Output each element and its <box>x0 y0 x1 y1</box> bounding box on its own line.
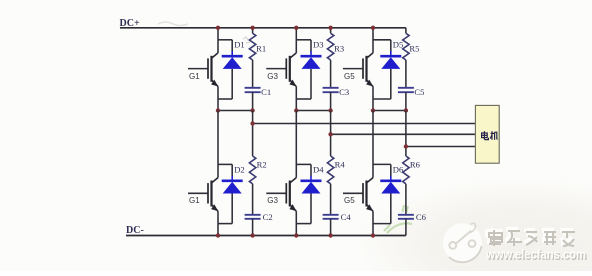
wire R top leg1 lower <box>252 111 254 157</box>
wire diode step leg1 upper <box>218 40 232 56</box>
wire diode anode leg3 lower <box>390 194 392 224</box>
resistor R4 <box>327 156 333 184</box>
label G1 upper <box>189 72 200 81</box>
wire emitter join leg3 upper <box>373 98 391 100</box>
node DC+ at leg2 <box>294 26 298 30</box>
capacitor C6 <box>398 215 414 219</box>
diode D4 <box>301 181 322 194</box>
svg-text:D4: D4 <box>313 164 324 174</box>
node DC- at R branch leg2 <box>328 233 332 237</box>
label C4 <box>341 212 352 222</box>
wire R top leg2 <box>330 28 332 34</box>
wire collector drop leg3 upper <box>372 28 374 53</box>
capacitor C1 <box>245 88 261 92</box>
faint green watermark fragment <box>384 205 412 233</box>
diode D2 <box>222 181 243 194</box>
wire C bottom leg2 upper <box>330 92 332 110</box>
svg-text:G5: G5 <box>344 196 355 205</box>
label C3 <box>339 87 349 97</box>
wire R-C link leg1 upper <box>252 60 254 87</box>
wire phase output 2 <box>331 133 476 135</box>
node phase output 3 <box>404 144 408 148</box>
node DC+ at leg3 <box>371 26 375 30</box>
transistor IGBT G5 lower <box>343 178 373 212</box>
svg-text:G1: G1 <box>189 196 200 205</box>
wire emitter join leg2 lower <box>296 223 311 225</box>
label G3 lower <box>267 196 278 205</box>
capacitor C3 <box>323 88 339 92</box>
resistor R2 <box>249 156 255 184</box>
resistor R1 <box>249 33 255 60</box>
svg-text:G3: G3 <box>267 196 278 205</box>
svg-text:G5: G5 <box>344 72 355 81</box>
resistor R3 <box>327 33 333 60</box>
wire phase output 1 <box>253 123 476 125</box>
wire collector drop leg2 upper <box>295 28 297 53</box>
label D2 <box>234 164 245 174</box>
watermark backdrop tint <box>355 178 592 276</box>
wire collector drop leg2 lower <box>295 111 297 178</box>
svg-text:R2: R2 <box>257 160 267 170</box>
faint gray smudge near D1 <box>243 37 250 43</box>
wire collector drop leg3 lower <box>372 111 374 178</box>
svg-text:C5: C5 <box>414 87 424 97</box>
transistor IGBT G1 lower <box>188 178 218 212</box>
DC- bottom rail wire <box>126 235 406 237</box>
wire emitter join leg1 upper <box>218 98 232 100</box>
svg-text:C4: C4 <box>341 212 352 222</box>
wire C bottom leg3 upper <box>405 92 407 110</box>
label D6 <box>393 164 404 174</box>
svg-text:R3: R3 <box>334 44 344 54</box>
wire C bottom leg2 lower <box>330 219 332 236</box>
svg-text:R6: R6 <box>410 160 421 170</box>
wire emitter drop leg1 upper <box>217 87 219 111</box>
label R3 <box>334 44 344 54</box>
label C6 <box>416 212 427 222</box>
node phase output 2 <box>328 132 332 136</box>
watermark text 电子发烧友 <box>487 228 575 246</box>
transistor IGBT G1 upper <box>188 53 218 87</box>
wire R top leg3 lower <box>405 111 407 157</box>
node DC- at R branch leg1 <box>250 233 254 237</box>
capacitor C4 <box>323 215 339 219</box>
node phase right leg1 <box>250 108 254 112</box>
watermark logo circle <box>443 223 482 262</box>
wire emitter drop leg1 lower <box>217 211 219 235</box>
svg-text:DC-: DC- <box>126 225 144 236</box>
label R6 <box>410 160 421 170</box>
node DC+ at R branch leg2 <box>328 26 332 30</box>
label D4 <box>313 164 324 174</box>
wire diode step leg3 lower <box>373 164 391 180</box>
node phase right leg3 <box>404 108 408 112</box>
wire R-C link leg3 upper <box>405 60 407 87</box>
label R2 <box>257 160 267 170</box>
wire R top leg3 <box>405 28 407 34</box>
wire phase junction leg1 <box>218 110 253 112</box>
svg-text:G3: G3 <box>267 72 278 81</box>
faint gray smudge on top rail <box>158 22 188 26</box>
wire phase output 3 <box>406 146 476 148</box>
wire emitter drop leg3 upper <box>372 87 374 111</box>
svg-text:D5: D5 <box>393 40 404 50</box>
label D5 <box>393 40 404 50</box>
svg-text:D3: D3 <box>313 40 324 50</box>
wire C bottom leg1 upper <box>252 92 254 110</box>
wire emitter join leg1 lower <box>218 223 232 225</box>
label C1 <box>261 87 271 97</box>
wire diode step leg2 upper <box>296 40 311 56</box>
svg-text:R5: R5 <box>409 44 419 54</box>
svg-text:www.elecfans.com: www.elecfans.com <box>485 247 586 262</box>
label G3 upper <box>267 72 278 81</box>
label R4 <box>335 160 346 170</box>
wire diode anode leg1 lower <box>231 194 233 224</box>
DC+ label <box>120 18 140 29</box>
wire phase junction leg3 <box>373 110 406 112</box>
node phase right leg2 <box>328 108 332 112</box>
wire diode anode leg3 upper <box>390 69 392 99</box>
wire diode anode leg1 upper <box>231 69 233 99</box>
svg-text:C3: C3 <box>339 87 349 97</box>
label D1 <box>234 40 245 50</box>
wire phase junction leg2 <box>296 110 330 112</box>
wire R top leg1 <box>252 28 254 34</box>
node phase left leg3 <box>371 108 375 112</box>
svg-text:D1: D1 <box>234 40 245 50</box>
resistor R5 <box>403 33 409 60</box>
svg-text:C6: C6 <box>416 212 427 222</box>
wire collector drop leg1 upper <box>217 28 219 53</box>
motor box <box>475 105 499 163</box>
node DC+ at leg1 <box>216 26 220 30</box>
wire emitter drop leg3 lower <box>372 211 374 235</box>
wire emitter drop leg2 lower <box>295 211 297 235</box>
label G5 lower <box>344 196 355 205</box>
node DC+ at R branch leg1 <box>250 26 254 30</box>
wire emitter join leg2 upper <box>296 98 311 100</box>
wire diode step leg1 lower <box>218 164 232 180</box>
capacitor C5 <box>398 88 414 92</box>
wire diode anode leg2 lower <box>310 194 312 224</box>
node phase left leg1 <box>216 108 220 112</box>
label R5 <box>409 44 419 54</box>
svg-text:R1: R1 <box>256 44 266 54</box>
label C5 <box>414 87 424 97</box>
wire emitter drop leg2 upper <box>295 87 297 111</box>
transistor IGBT G3 upper <box>266 53 296 87</box>
label D3 <box>313 40 324 50</box>
label C2 <box>263 212 273 222</box>
diode D6 <box>380 181 401 194</box>
diode D1 <box>222 56 243 69</box>
wire R-C link leg1 lower <box>252 184 254 214</box>
node phase left leg2 <box>294 108 298 112</box>
wire C bottom leg3 lower <box>405 219 407 236</box>
svg-text:C1: C1 <box>261 87 271 97</box>
wire diode step leg2 lower <box>296 164 311 180</box>
node DC- at leg3 <box>371 233 375 237</box>
capacitor C2 <box>245 215 261 219</box>
diode D5 <box>380 56 401 69</box>
DC+ top rail wire <box>120 27 406 29</box>
DC- label <box>126 225 144 236</box>
diode D3 <box>301 56 322 69</box>
watermark text www.elecfans.com <box>485 247 587 263</box>
wire R-C link leg2 upper <box>330 60 332 87</box>
motor label 电机 <box>482 131 498 140</box>
label R1 <box>256 44 266 54</box>
label G1 lower <box>189 196 200 205</box>
label G5 upper <box>344 72 355 81</box>
svg-text:C2: C2 <box>263 212 273 222</box>
node phase output 1 <box>250 121 254 125</box>
svg-text:G1: G1 <box>189 72 200 81</box>
svg-text:DC+: DC+ <box>120 18 140 29</box>
node DC- at leg1 <box>216 233 220 237</box>
node DC- at leg2 <box>294 233 298 237</box>
wire diode step leg3 upper <box>373 40 391 56</box>
wire R top leg2 lower <box>330 111 332 157</box>
wire R-C link leg3 lower <box>405 184 407 214</box>
wire diode anode leg2 upper <box>310 69 312 99</box>
svg-text:R4: R4 <box>335 160 346 170</box>
wire emitter join leg3 lower <box>373 223 391 225</box>
resistor R6 <box>403 156 409 184</box>
transistor IGBT G3 lower <box>266 178 296 212</box>
transistor IGBT G5 upper <box>343 53 373 87</box>
wire C bottom leg1 lower <box>252 219 254 236</box>
wire collector drop leg1 lower <box>217 111 219 178</box>
wire R-C link leg2 lower <box>330 184 332 214</box>
svg-text:D2: D2 <box>234 164 245 174</box>
